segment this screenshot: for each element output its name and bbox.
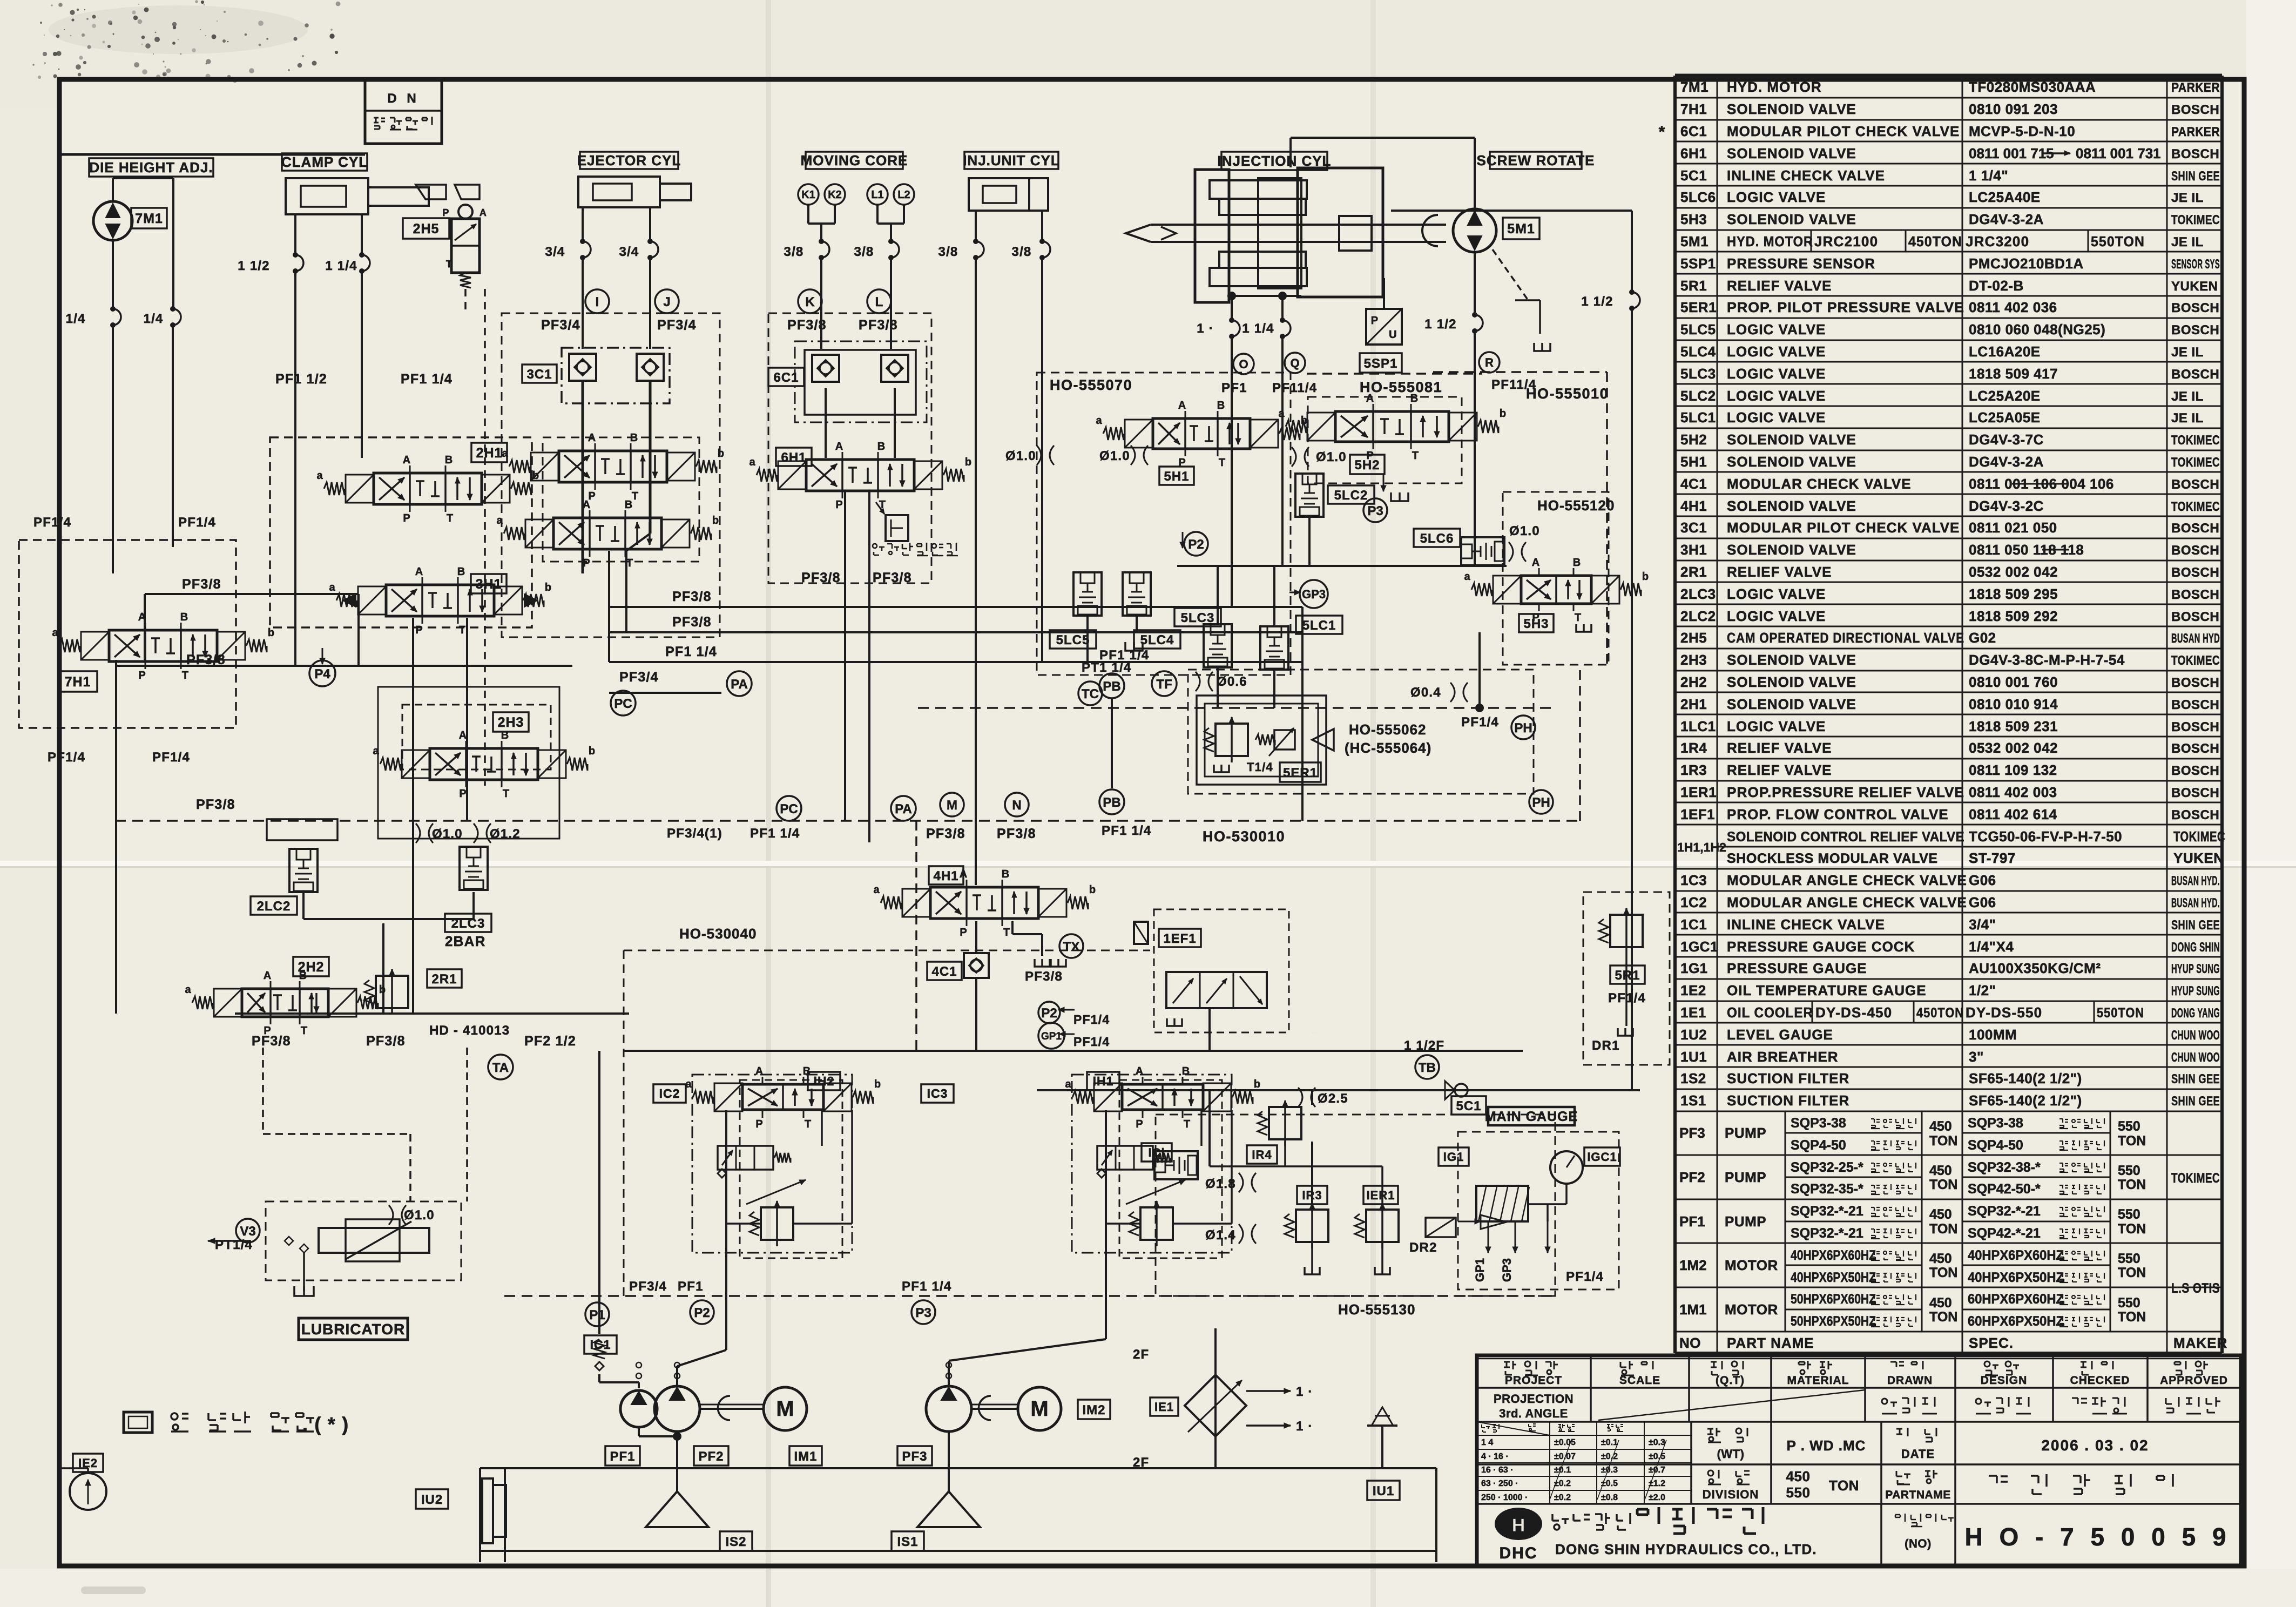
svg-text:a: a [329, 582, 335, 593]
svg-text:±2.0: ±2.0 [1649, 1493, 1665, 1502]
svg-text:550: 550 [2118, 1251, 2140, 1266]
svg-text:0811 109 132: 0811 109 132 [1969, 762, 2057, 778]
svg-text:a: a [52, 627, 58, 639]
svg-text:PH: PH [1514, 721, 1532, 735]
svg-text:TON: TON [1929, 1221, 1957, 1237]
svg-text:MCVP-5-D-N-10: MCVP-5-D-N-10 [1969, 123, 2075, 139]
svg-text:5C1: 5C1 [1680, 167, 1707, 184]
svg-text:100MM: 100MM [1969, 1027, 2017, 1043]
svg-text:INLINE CHECK VALVE: INLINE CHECK VALVE [1727, 916, 1885, 933]
svg-text:550: 550 [2118, 1295, 2140, 1311]
svg-text:MAIN GAUGE: MAIN GAUGE [1485, 1109, 1578, 1124]
svg-text:2R1: 2R1 [1680, 564, 1707, 580]
svg-text:±0.2: ±0.2 [1601, 1452, 1618, 1461]
svg-text:P: P [583, 557, 590, 569]
svg-text:NO: NO [1679, 1335, 1701, 1351]
svg-text:PF1/4: PF1/4 [1073, 1035, 1110, 1049]
svg-text:TON: TON [2118, 1265, 2146, 1280]
svg-text:MOTOR: MOTOR [1725, 1301, 1778, 1318]
svg-text:PART NAME: PART NAME [1727, 1335, 1814, 1351]
svg-text:A: A [415, 566, 423, 578]
svg-text:PF3/8: PF3/8 [859, 318, 898, 333]
svg-text:ICl: ICl [1148, 1146, 1165, 1159]
svg-text:IS2: IS2 [725, 1535, 746, 1549]
svg-text:DT-02-B: DT-02-B [1969, 278, 2024, 294]
svg-text:PB: PB [1103, 679, 1120, 694]
svg-text:a: a [1278, 408, 1285, 420]
svg-text:GP3: GP3 [1500, 1258, 1514, 1282]
svg-text:PF3/8: PF3/8 [787, 318, 827, 333]
svg-text:O: O [1239, 357, 1248, 371]
svg-text:1 1/2F: 1 1/2F [1404, 1038, 1444, 1053]
svg-text:PF1/4: PF1/4 [178, 515, 216, 530]
svg-text:PF3/8: PF3/8 [1025, 969, 1063, 984]
svg-text:450: 450 [1929, 1207, 1952, 1222]
svg-text:A: A [459, 730, 467, 741]
svg-text:5LC4: 5LC4 [1140, 633, 1174, 647]
svg-text:1818 509 417: 1818 509 417 [1969, 366, 2058, 382]
svg-text:TC: TC [1082, 687, 1099, 701]
svg-text:40HPX6PX50HZ: 40HPX6PX50HZ [1791, 1270, 1876, 1285]
svg-text:1 1/4: 1 1/4 [1242, 321, 1274, 336]
svg-text:BOSCH: BOSCH [2171, 676, 2219, 690]
svg-text:BOSCH: BOSCH [2171, 808, 2219, 822]
svg-text:2LC3: 2LC3 [1680, 586, 1716, 602]
svg-text:HO-555010: HO-555010 [1526, 386, 1609, 402]
svg-text:CHUN WOO: CHUN WOO [2171, 1050, 2220, 1065]
svg-text:A: A [480, 207, 487, 218]
svg-text:PF1 1/2: PF1 1/2 [275, 372, 327, 387]
svg-text:P2: P2 [1188, 537, 1204, 552]
svg-text:250 · 1000 ·: 250 · 1000 · [1481, 1493, 1528, 1502]
svg-text:a: a [873, 884, 880, 896]
svg-text:SOLENOID VALVE: SOLENOID VALVE [1727, 431, 1856, 448]
svg-text:YUKEN: YUKEN [2171, 279, 2218, 294]
svg-text:SQP42-*-21: SQP42-*-21 [1968, 1226, 2041, 1241]
svg-text:APPROVED: APPROVED [2160, 1374, 2228, 1387]
svg-text:SPEC.: SPEC. [1969, 1335, 2014, 1351]
svg-text:K1: K1 [801, 189, 815, 201]
svg-text:SF65-140(2 1/2"): SF65-140(2 1/2") [1969, 1092, 2082, 1109]
svg-text:450TON: 450TON [1908, 233, 1962, 249]
svg-text:SUCTION FILTER: SUCTION FILTER [1727, 1092, 1849, 1109]
svg-text:DESIGN: DESIGN [1981, 1374, 2028, 1387]
svg-text:P: P [459, 788, 466, 800]
svg-text:IS1: IS1 [897, 1535, 918, 1549]
svg-text:B: B [457, 566, 465, 578]
svg-text:TOKIMEC: TOKIMEC [2171, 653, 2220, 668]
svg-text:G02: G02 [1969, 630, 1996, 646]
svg-text:PROP.PRESSURE RELIEF VALVE: PROP.PRESSURE RELIEF VALVE [1727, 784, 1964, 800]
svg-text:PARKER: PARKER [2171, 125, 2220, 139]
svg-text:T: T [1219, 457, 1225, 469]
svg-text:PA: PA [731, 677, 748, 692]
svg-text:PROP. PILOT PRESSURE VALVE: PROP. PILOT PRESSURE VALVE [1727, 299, 1964, 315]
svg-text:3H1: 3H1 [476, 577, 502, 592]
svg-text:PF3/8: PF3/8 [186, 652, 226, 667]
svg-text:3C1: 3C1 [526, 367, 552, 382]
svg-text:5C1: 5C1 [1456, 1099, 1481, 1113]
svg-text:1 ·: 1 · [1197, 321, 1214, 336]
svg-text:±0.5: ±0.5 [1649, 1452, 1665, 1461]
svg-text:IR4: IR4 [1252, 1148, 1272, 1162]
svg-text:T: T [1412, 450, 1419, 462]
svg-text:7H1: 7H1 [65, 674, 91, 690]
svg-text:IH2: IH2 [814, 1074, 835, 1088]
svg-text:6H1: 6H1 [781, 450, 806, 465]
svg-text:LOGIC VALVE: LOGIC VALVE [1727, 586, 1826, 602]
svg-text:b: b [1500, 408, 1506, 420]
svg-text:450: 450 [1929, 1251, 1952, 1266]
svg-text:(WT): (WT) [1717, 1447, 1745, 1461]
svg-text:YUKEN: YUKEN [2173, 850, 2224, 866]
svg-text:450: 450 [1929, 1119, 1952, 1134]
svg-text:3rd. ANGLE: 3rd. ANGLE [1499, 1407, 1568, 1420]
svg-text:PF2: PF2 [1679, 1169, 1705, 1185]
svg-text:a: a [316, 470, 323, 482]
svg-text:3/8: 3/8 [854, 245, 874, 259]
svg-text:TON: TON [1929, 1133, 1957, 1149]
svg-text:P: P [442, 207, 449, 218]
svg-text:BOSCH: BOSCH [2171, 301, 2219, 315]
svg-text:5M1: 5M1 [1680, 233, 1709, 249]
svg-text:P3: P3 [915, 1306, 931, 1320]
svg-text:TOKIMEC: TOKIMEC [2173, 828, 2225, 845]
svg-text:HO-530040: HO-530040 [679, 926, 757, 942]
svg-text:5H3: 5H3 [1680, 211, 1707, 227]
svg-text:50HPX6PX60HZ: 50HPX6PX60HZ [1791, 1292, 1876, 1307]
svg-text:IU1: IU1 [1373, 1484, 1394, 1498]
svg-text:±0.5: ±0.5 [1601, 1479, 1618, 1488]
svg-text:SQP3-38: SQP3-38 [1968, 1116, 2023, 1131]
svg-text:MODULAR ANGLE CHECK VALVE: MODULAR ANGLE CHECK VALVE [1727, 894, 1967, 910]
svg-text:B: B [1410, 393, 1418, 404]
svg-text:SOLENOID VALVE: SOLENOID VALVE [1727, 454, 1856, 470]
svg-text:JRC3200: JRC3200 [1966, 233, 2029, 249]
svg-text:T: T [805, 1118, 811, 1130]
svg-text:PROP. FLOW CONTROL VALVE: PROP. FLOW CONTROL VALVE [1727, 806, 1949, 822]
svg-text:CHECKED: CHECKED [2070, 1374, 2130, 1387]
svg-text:SQP32-*-21: SQP32-*-21 [1968, 1204, 2041, 1219]
svg-text:PF3/8: PF3/8 [182, 577, 221, 592]
svg-text:a: a [1065, 1078, 1071, 1090]
svg-text:INLINE CHECK VALVE: INLINE CHECK VALVE [1727, 167, 1885, 184]
svg-text:BOSCH: BOSCH [2171, 610, 2219, 624]
svg-text:BOSCH: BOSCH [2171, 720, 2219, 734]
svg-text:IH1: IH1 [1093, 1074, 1114, 1088]
svg-text:P: P [138, 670, 145, 681]
svg-text:IER1: IER1 [1367, 1189, 1395, 1202]
svg-text:HO-555070: HO-555070 [1050, 377, 1132, 393]
svg-text:P: P [755, 1118, 762, 1130]
svg-text:SOLENOID VALVE: SOLENOID VALVE [1727, 674, 1856, 690]
svg-text:3/4: 3/4 [619, 245, 639, 259]
svg-text:B: B [1573, 557, 1581, 569]
svg-text:TOKIMEC: TOKIMEC [2171, 455, 2220, 470]
svg-text:JE IL: JE IL [2171, 345, 2204, 360]
svg-text:0811 021 050: 0811 021 050 [1969, 519, 2057, 536]
svg-text:SENSOR SYS: SENSOR SYS [2171, 257, 2220, 272]
svg-text:IM1: IM1 [794, 1449, 817, 1464]
svg-text:BOSCH: BOSCH [2171, 103, 2219, 117]
svg-text:TON: TON [2118, 1221, 2146, 1237]
svg-text:PF3/8: PF3/8 [873, 570, 912, 585]
svg-text:BOSCH: BOSCH [2171, 698, 2219, 712]
svg-text:TCG50-06-FV-P-H-7-50: TCG50-06-FV-P-H-7-50 [1969, 828, 2122, 845]
svg-text:HO-555130: HO-555130 [1338, 1301, 1415, 1318]
svg-text:SHIN GEE: SHIN GEE [2171, 1094, 2220, 1109]
svg-text:PF11/4: PF11/4 [1272, 381, 1317, 395]
svg-text:T: T [1575, 612, 1581, 624]
svg-text:PF1: PF1 [610, 1449, 635, 1464]
svg-text:Ø1.0: Ø1.0 [1316, 450, 1347, 464]
svg-text:DG4V-3-2A: DG4V-3-2A [1969, 454, 2044, 470]
svg-text:±0.8: ±0.8 [1601, 1493, 1618, 1502]
svg-text:5LC5: 5LC5 [1680, 321, 1716, 337]
svg-text:T: T [1184, 1118, 1190, 1130]
svg-text:BOSCH: BOSCH [2171, 764, 2219, 778]
svg-text:SOLENOID VALVE: SOLENOID VALVE [1727, 145, 1856, 161]
svg-text:JRC2100: JRC2100 [1814, 233, 1878, 249]
svg-text:LUBRICATOR: LUBRICATOR [301, 1321, 406, 1338]
svg-text:60HPX6PX60HZ: 60HPX6PX60HZ [1968, 1292, 2064, 1307]
svg-text:0811 402 036: 0811 402 036 [1969, 299, 2057, 315]
svg-text:LOGIC VALVE: LOGIC VALVE [1727, 366, 1826, 382]
svg-text:PF3/8: PF3/8 [252, 1034, 291, 1049]
svg-text:1 1/4: 1 1/4 [325, 259, 357, 273]
svg-text:1S1: 1S1 [1680, 1092, 1706, 1109]
svg-text:0811 001 715: 0811 001 715 [1969, 145, 2054, 161]
svg-text:LOGIC VALVE: LOGIC VALVE [1727, 409, 1826, 426]
svg-text:PF1/4: PF1/4 [1566, 1270, 1604, 1284]
svg-text:450TON: 450TON [1916, 1005, 1964, 1021]
svg-text:A: A [835, 441, 843, 453]
svg-text:PARTNAME: PARTNAME [1885, 1489, 1950, 1501]
svg-text:HYUP SUNG: HYUP SUNG [2171, 962, 2220, 976]
svg-text:1G1: 1G1 [1680, 960, 1708, 976]
svg-text:A: A [1178, 400, 1186, 411]
svg-text:IG1: IG1 [1443, 1150, 1464, 1164]
svg-text:INJ.UNIT CYL: INJ.UNIT CYL [963, 152, 1060, 168]
svg-text:A: A [264, 970, 271, 982]
svg-text:PF1: PF1 [678, 1279, 704, 1294]
svg-text:PRESSURE SENSOR: PRESSURE SENSOR [1727, 255, 1875, 272]
svg-text:BOSCH: BOSCH [2171, 521, 2219, 536]
svg-text:LEVEL GAUGE: LEVEL GAUGE [1727, 1027, 1833, 1043]
svg-text:PF3/8: PF3/8 [196, 797, 235, 812]
svg-text:1M2: 1M2 [1679, 1257, 1707, 1273]
svg-text:R: R [1485, 356, 1494, 369]
svg-text:0811 001 731: 0811 001 731 [2076, 145, 2161, 161]
svg-text:40HPX6PX60HZ: 40HPX6PX60HZ [1968, 1248, 2064, 1263]
svg-text:3/4: 3/4 [545, 245, 565, 259]
svg-text:AU100X350KG/CM²: AU100X350KG/CM² [1969, 960, 2101, 976]
svg-text:P3: P3 [1367, 504, 1383, 518]
svg-text:Ø1.0: Ø1.0 [1005, 449, 1036, 463]
svg-text:V3: V3 [240, 1224, 255, 1239]
svg-text:1 ·: 1 · [1296, 1419, 1313, 1434]
svg-text:PMCJO210BD1A: PMCJO210BD1A [1969, 255, 2084, 272]
svg-text:SOLENOID VALVE: SOLENOID VALVE [1727, 101, 1856, 117]
svg-text:SQP4-50: SQP4-50 [1791, 1138, 1846, 1153]
svg-text:OIL TEMPERATURE GAUGE: OIL TEMPERATURE GAUGE [1727, 982, 1927, 998]
svg-text:LC16A20E: LC16A20E [1969, 343, 2041, 360]
svg-text:PF2 1/2: PF2 1/2 [524, 1034, 576, 1049]
svg-text:MAKER: MAKER [2173, 1335, 2227, 1351]
svg-text:5LC5: 5LC5 [1056, 633, 1090, 647]
svg-text:P2: P2 [1041, 1006, 1057, 1021]
svg-text:SQP3-38: SQP3-38 [1791, 1116, 1846, 1131]
svg-text:A: A [403, 454, 410, 466]
svg-text:TON: TON [1929, 1177, 1957, 1192]
svg-text:1GC1: 1GC1 [1680, 938, 1718, 955]
svg-text:1EF1: 1EF1 [1163, 931, 1196, 946]
svg-text:RELIEF VALVE: RELIEF VALVE [1727, 740, 1832, 756]
svg-text:RELIEF VALVE: RELIEF VALVE [1727, 278, 1832, 294]
svg-text:5LC2: 5LC2 [1680, 388, 1716, 404]
svg-text:2H3: 2H3 [1680, 652, 1707, 668]
svg-text:b: b [589, 745, 595, 757]
svg-text:SHIN GEE: SHIN GEE [2171, 918, 2220, 933]
svg-text:1C2: 1C2 [1680, 894, 1707, 910]
svg-text:PF3/4(1): PF3/4(1) [667, 826, 722, 841]
svg-text:TB: TB [1419, 1061, 1436, 1075]
svg-text:SQP32-35-*: SQP32-35-* [1791, 1181, 1863, 1197]
svg-text:PH: PH [1532, 795, 1550, 810]
svg-text:BOSCH: BOSCH [2171, 565, 2219, 580]
svg-text:6C1: 6C1 [1680, 123, 1707, 139]
svg-text:550: 550 [2118, 1119, 2140, 1134]
svg-text:BOSCH: BOSCH [2171, 741, 2219, 756]
svg-text:DATE: DATE [1901, 1447, 1935, 1461]
svg-text:40HPX6PX50HZ: 40HPX6PX50HZ [1968, 1270, 2064, 1285]
svg-text:SOLENOID VALVE: SOLENOID VALVE [1727, 211, 1856, 227]
svg-text:DONG SHIN HYDRAULICS CO., LTD.: DONG SHIN HYDRAULICS CO., LTD. [1555, 1541, 1817, 1557]
svg-text:PF1/4: PF1/4 [1073, 1012, 1110, 1027]
svg-text:BOSCH: BOSCH [2171, 786, 2219, 800]
svg-text:TON: TON [2118, 1177, 2146, 1192]
svg-text:PF1 1/4: PF1 1/4 [401, 372, 453, 387]
svg-text:P2: P2 [694, 1306, 710, 1320]
svg-text:±0.3: ±0.3 [1649, 1438, 1665, 1447]
svg-text:T: T [632, 490, 638, 502]
svg-text:PF3: PF3 [902, 1449, 927, 1464]
svg-text:T: T [503, 788, 509, 800]
svg-text:MODULAR CHECK VALVE: MODULAR CHECK VALVE [1727, 476, 1912, 492]
svg-text:DONG SHIN: DONG SHIN [2171, 940, 2220, 955]
svg-text:HYD. MOTOR: HYD. MOTOR [1727, 233, 1813, 249]
svg-text:GP3: GP3 [1302, 588, 1326, 601]
svg-text:Ø1.0: Ø1.0 [432, 827, 463, 841]
svg-text:T: T [447, 512, 453, 524]
svg-text:PF3/4: PF3/4 [541, 318, 580, 333]
svg-text:b: b [545, 582, 551, 593]
svg-text:0811 402 003: 0811 402 003 [1969, 784, 2057, 800]
svg-text:PT1 1/4: PT1 1/4 [1082, 660, 1131, 675]
svg-text:Ø0.6: Ø0.6 [1217, 674, 1247, 689]
svg-text:JE IL: JE IL [2171, 411, 2204, 426]
svg-text:P4: P4 [314, 667, 330, 681]
svg-text:Q: Q [1290, 356, 1299, 370]
svg-text:SCREW ROTATE: SCREW ROTATE [1476, 152, 1595, 168]
svg-text:DG4V-3-7C: DG4V-3-7C [1969, 431, 2044, 448]
svg-text:±0.1: ±0.1 [1601, 1438, 1618, 1447]
svg-text:CAM OPERATED DIRECTIONAL VALVE: CAM OPERATED DIRECTIONAL VALVE [1727, 630, 1964, 646]
svg-text:SOLENOID VALVE: SOLENOID VALVE [1727, 542, 1856, 558]
svg-text:DG4V-3-2A: DG4V-3-2A [1969, 211, 2044, 227]
svg-text:B: B [180, 611, 188, 623]
svg-text:1E2: 1E2 [1680, 982, 1706, 998]
svg-text:PUMP: PUMP [1725, 1125, 1766, 1141]
svg-text:HO-530010: HO-530010 [1203, 828, 1285, 845]
svg-text:P: P [1371, 315, 1379, 327]
svg-text:TOKIMEC: TOKIMEC [2171, 499, 2220, 514]
svg-text:PF1 1/4: PF1 1/4 [1102, 823, 1151, 838]
svg-text:M: M [776, 1397, 794, 1421]
svg-text:K: K [805, 295, 815, 309]
svg-text:P1: P1 [589, 1308, 605, 1322]
svg-text:M: M [947, 798, 957, 813]
svg-text:T: T [1003, 927, 1010, 938]
svg-text:5LC3: 5LC3 [1181, 611, 1215, 625]
svg-text:TON: TON [2118, 1309, 2146, 1325]
svg-text:LOGIC VALVE: LOGIC VALVE [1727, 321, 1826, 337]
svg-text:PF1 1/4: PF1 1/4 [902, 1279, 951, 1294]
svg-text:JE IL: JE IL [2171, 389, 2204, 404]
svg-text:T: T [182, 670, 188, 681]
svg-text:4C1: 4C1 [931, 964, 957, 979]
svg-text:PF1/4: PF1/4 [1461, 715, 1499, 730]
svg-text:±0.05: ±0.05 [1554, 1438, 1576, 1447]
svg-text:U: U [1389, 329, 1397, 341]
svg-text:MODULAR ANGLE CHECK VALVE: MODULAR ANGLE CHECK VALVE [1727, 872, 1967, 888]
svg-text:MOVING CORE: MOVING CORE [801, 152, 908, 168]
svg-text:B: B [877, 441, 885, 453]
svg-text:PF3/4: PF3/4 [619, 670, 659, 685]
svg-text:SQP32-38-*: SQP32-38-* [1968, 1160, 2041, 1175]
svg-text:0810 001 760: 0810 001 760 [1969, 674, 2058, 690]
svg-text:P: P [960, 927, 967, 938]
svg-text:DHC: DHC [1500, 1544, 1538, 1562]
svg-text:SQP42-50-*: SQP42-50-* [1968, 1181, 2041, 1197]
svg-text:BOSCH: BOSCH [2171, 588, 2219, 602]
svg-text:1 ·: 1 · [1296, 1385, 1313, 1399]
svg-text:5R1: 5R1 [1680, 278, 1707, 294]
svg-text:TON: TON [1929, 1309, 1957, 1325]
svg-text:OIL COOLER: OIL COOLER [1727, 1004, 1813, 1021]
svg-text:B: B [625, 499, 632, 511]
svg-text:PF3/4: PF3/4 [657, 318, 697, 333]
svg-text:b: b [379, 984, 386, 996]
svg-text:B: B [1217, 400, 1225, 411]
svg-text:EJECTOR CYL: EJECTOR CYL [577, 152, 681, 168]
svg-text:450: 450 [1929, 1295, 1952, 1311]
svg-text:1LC1: 1LC1 [1680, 718, 1716, 734]
svg-text:PC: PC [780, 802, 798, 816]
svg-text:±0.2: ±0.2 [1554, 1493, 1571, 1502]
svg-text:P: P [835, 499, 842, 511]
svg-text:1U2: 1U2 [1680, 1027, 1707, 1043]
svg-text:Ø1.8: Ø1.8 [1205, 1177, 1236, 1191]
svg-text:PROJECTION: PROJECTION [1494, 1392, 1574, 1406]
svg-text:GP1: GP1 [1473, 1258, 1487, 1282]
svg-text:IU2: IU2 [421, 1493, 443, 1507]
svg-text:1E1: 1E1 [1680, 1004, 1706, 1021]
svg-text:60HPX6PX50HZ: 60HPX6PX50HZ [1968, 1314, 2064, 1329]
svg-text:PUMP: PUMP [1725, 1169, 1766, 1185]
svg-text:SOLENOID CONTROL RELIEF VALVE: SOLENOID CONTROL RELIEF VALVE [1727, 829, 1964, 845]
svg-text:DR1: DR1 [1592, 1038, 1620, 1053]
